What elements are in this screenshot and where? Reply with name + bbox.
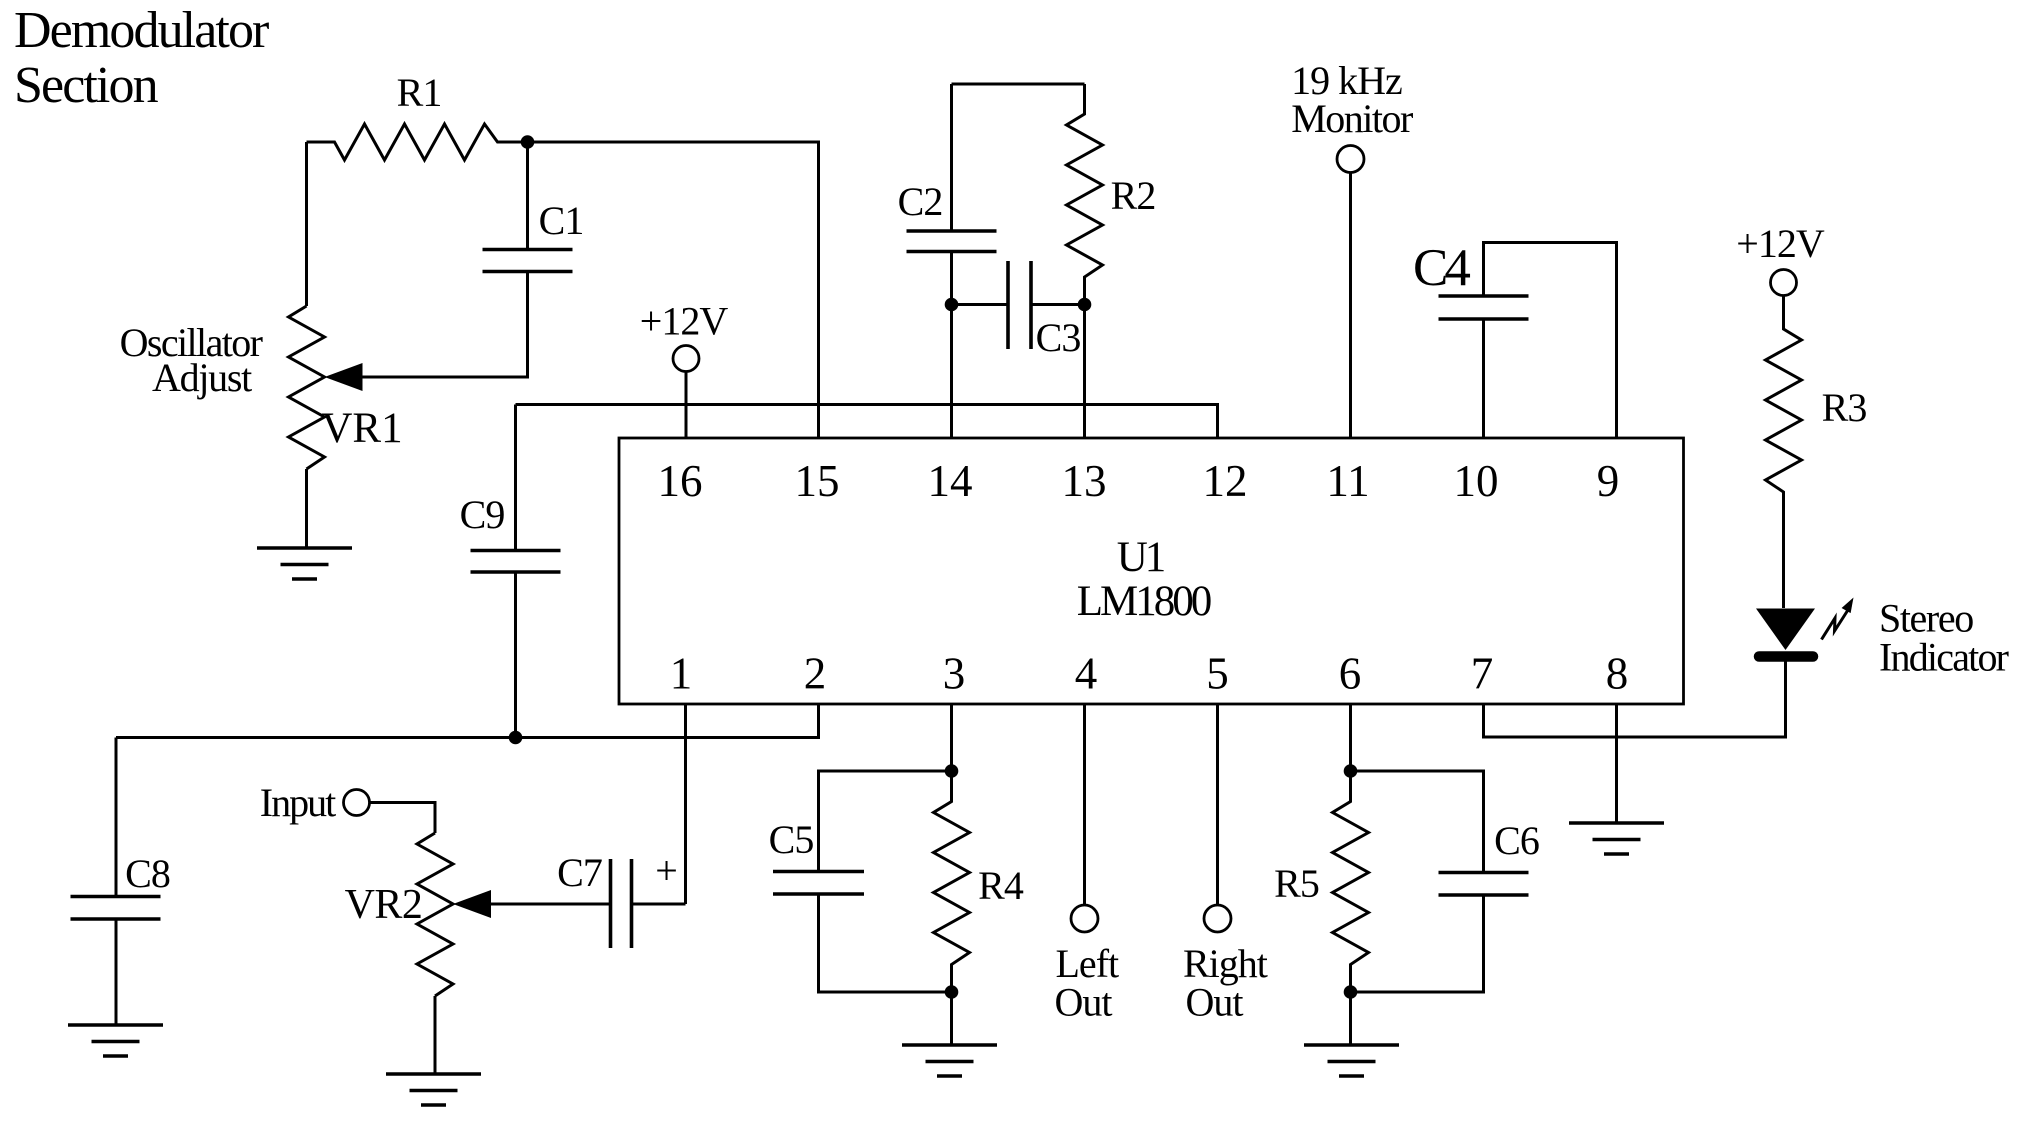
op-amp U1 IC box LM1800 xyxy=(619,438,1684,704)
svg-text:R4: R4 xyxy=(978,863,1024,908)
svg-text:Out: Out xyxy=(1186,980,1244,1025)
svg-text:10: 10 xyxy=(1454,456,1499,506)
svg-text:Section: Section xyxy=(14,57,159,114)
ground below VR2 xyxy=(386,1074,481,1105)
svg-text:Input: Input xyxy=(260,780,336,825)
svg-text:5: 5 xyxy=(1206,649,1229,699)
junction R2 C3 (pin 13) xyxy=(1078,298,1092,312)
wire VR2 wiper to C7 xyxy=(491,903,611,906)
ground below pin 8 xyxy=(1569,823,1664,854)
wire R5 to ground xyxy=(1349,992,1352,1045)
svg-text:7: 7 xyxy=(1471,649,1494,699)
svg-text:Indicator: Indicator xyxy=(1879,635,2009,680)
wire LED cathode to pin 7 xyxy=(1484,662,1786,738)
svg-text:C7: C7 xyxy=(557,850,602,895)
capacitor C2 xyxy=(907,84,997,438)
wire +12V terminal to pin 16 xyxy=(685,372,688,439)
capacitor C6 xyxy=(1351,771,1529,992)
svg-text:+12V: +12V xyxy=(1736,221,1825,266)
capacitor C9 xyxy=(471,405,561,738)
wire pin 5 to Right Out xyxy=(1216,704,1219,905)
svg-text:2: 2 xyxy=(804,649,827,699)
wire VR1 top to R1 left xyxy=(305,142,308,306)
capacitor C7 xyxy=(611,859,686,948)
ground below C8 xyxy=(68,1025,163,1056)
svg-text:VR2: VR2 xyxy=(345,882,423,928)
svg-text:9: 9 xyxy=(1597,456,1620,506)
wire C2 top to R2 top xyxy=(952,83,1085,86)
wire VR2 bottom to ground xyxy=(434,996,437,1074)
resistor R5 xyxy=(1333,771,1369,992)
wire pin 6 to R5 xyxy=(1349,704,1352,771)
label Oscillator Adjust xyxy=(120,320,263,400)
terminal +12V (R3) xyxy=(1771,270,1797,296)
ground below R5 xyxy=(1304,1045,1399,1076)
title Demodulator Section xyxy=(14,2,269,114)
svg-text:16: 16 xyxy=(658,456,703,506)
svg-text:Out: Out xyxy=(1055,980,1113,1025)
LED stereo indicator D1 xyxy=(1756,609,1815,657)
capacitor C8 xyxy=(71,738,161,1026)
svg-text:8: 8 xyxy=(1606,649,1629,699)
svg-text:Demodulator: Demodulator xyxy=(14,2,269,59)
wire C7 to pin 1 xyxy=(684,704,687,904)
svg-text:13: 13 xyxy=(1062,456,1107,506)
resistor R1 xyxy=(307,124,528,160)
resistor R3 xyxy=(1766,296,1802,609)
resistor R4 xyxy=(934,771,970,992)
wire pin 8 to ground xyxy=(1615,704,1618,823)
svg-text:+12V: +12V xyxy=(640,299,729,344)
wire R4 to ground xyxy=(950,992,953,1045)
terminal Right Out xyxy=(1204,905,1231,932)
svg-text:14: 14 xyxy=(928,456,973,506)
svg-text:6: 6 xyxy=(1339,649,1362,699)
ground below R4 xyxy=(902,1045,997,1076)
label Left Out xyxy=(1055,941,1120,1025)
svg-text:C8: C8 xyxy=(125,851,170,896)
svg-text:11: 11 xyxy=(1326,456,1369,506)
wire Input to VR2 xyxy=(370,803,436,834)
svg-text:VR1: VR1 xyxy=(321,405,402,452)
svg-text:C5: C5 xyxy=(769,817,814,862)
svg-text:12: 12 xyxy=(1203,456,1248,506)
capacitor C5 xyxy=(773,771,952,992)
svg-text:U1: U1 xyxy=(1117,534,1164,581)
label U1 LM1800 xyxy=(1077,534,1211,625)
junction C9 bus xyxy=(509,731,523,745)
wire monitor terminal to pin 11 xyxy=(1349,173,1352,439)
label Right Out xyxy=(1183,941,1268,1025)
potentiometer VR2 xyxy=(417,833,491,996)
wire VR1 wiper to C1 bottom xyxy=(363,272,528,378)
junction R4 C5 bottom xyxy=(945,985,959,999)
label Stereo Indicator xyxy=(1879,596,2009,680)
svg-text:Adjust: Adjust xyxy=(152,355,252,400)
svg-text:R5: R5 xyxy=(1274,861,1319,906)
label 19 kHz Monitor xyxy=(1291,58,1413,141)
wire bus C8 to pin 2 xyxy=(116,704,819,738)
svg-text:C1: C1 xyxy=(539,198,584,243)
svg-text:C3: C3 xyxy=(1036,315,1081,360)
svg-text:4: 4 xyxy=(1075,649,1098,699)
svg-text:R1: R1 xyxy=(397,70,442,115)
terminal +12V (pin 16) xyxy=(673,346,699,372)
svg-text:+: + xyxy=(655,848,677,893)
wire C9 to pin 12 xyxy=(516,405,1218,439)
wire pin 4 to Left Out xyxy=(1083,704,1086,905)
wire junction to pin 13 xyxy=(1083,305,1086,439)
svg-text:C6: C6 xyxy=(1494,818,1539,863)
capacitor C4 xyxy=(1439,243,1617,439)
terminal Input xyxy=(344,790,370,816)
svg-text:Monitor: Monitor xyxy=(1291,96,1413,141)
capacitor C3 xyxy=(952,261,1085,349)
capacitor C1 xyxy=(483,142,573,272)
wire R1 junction to pin 15 xyxy=(528,142,819,438)
terminal 19 kHz Monitor xyxy=(1337,146,1364,173)
svg-text:C4: C4 xyxy=(1413,239,1470,297)
terminal Left Out xyxy=(1071,905,1098,932)
junction R1 C1 xyxy=(521,135,535,149)
ground below VR1 xyxy=(257,548,352,579)
svg-text:C2: C2 xyxy=(898,179,943,224)
svg-text:1: 1 xyxy=(670,649,693,699)
potentiometer VR1 xyxy=(289,306,363,469)
svg-text:C9: C9 xyxy=(460,492,505,537)
junction R5 C6 bottom xyxy=(1344,985,1358,999)
svg-text:3: 3 xyxy=(943,649,966,699)
LED light arrow xyxy=(1822,598,1854,640)
junction R5 C6 top xyxy=(1344,764,1358,778)
junction R4 C5 top xyxy=(945,764,959,778)
svg-text:R3: R3 xyxy=(1822,385,1867,430)
junction C2 C3 (pin 14) xyxy=(945,298,959,312)
svg-text:LM1800: LM1800 xyxy=(1077,578,1211,625)
resistor R2 xyxy=(1067,84,1103,305)
svg-text:15: 15 xyxy=(795,456,840,506)
wire pin 3 to R4 xyxy=(950,704,953,771)
wire VR1 bottom to ground xyxy=(305,469,308,548)
svg-text:R2: R2 xyxy=(1111,173,1156,218)
